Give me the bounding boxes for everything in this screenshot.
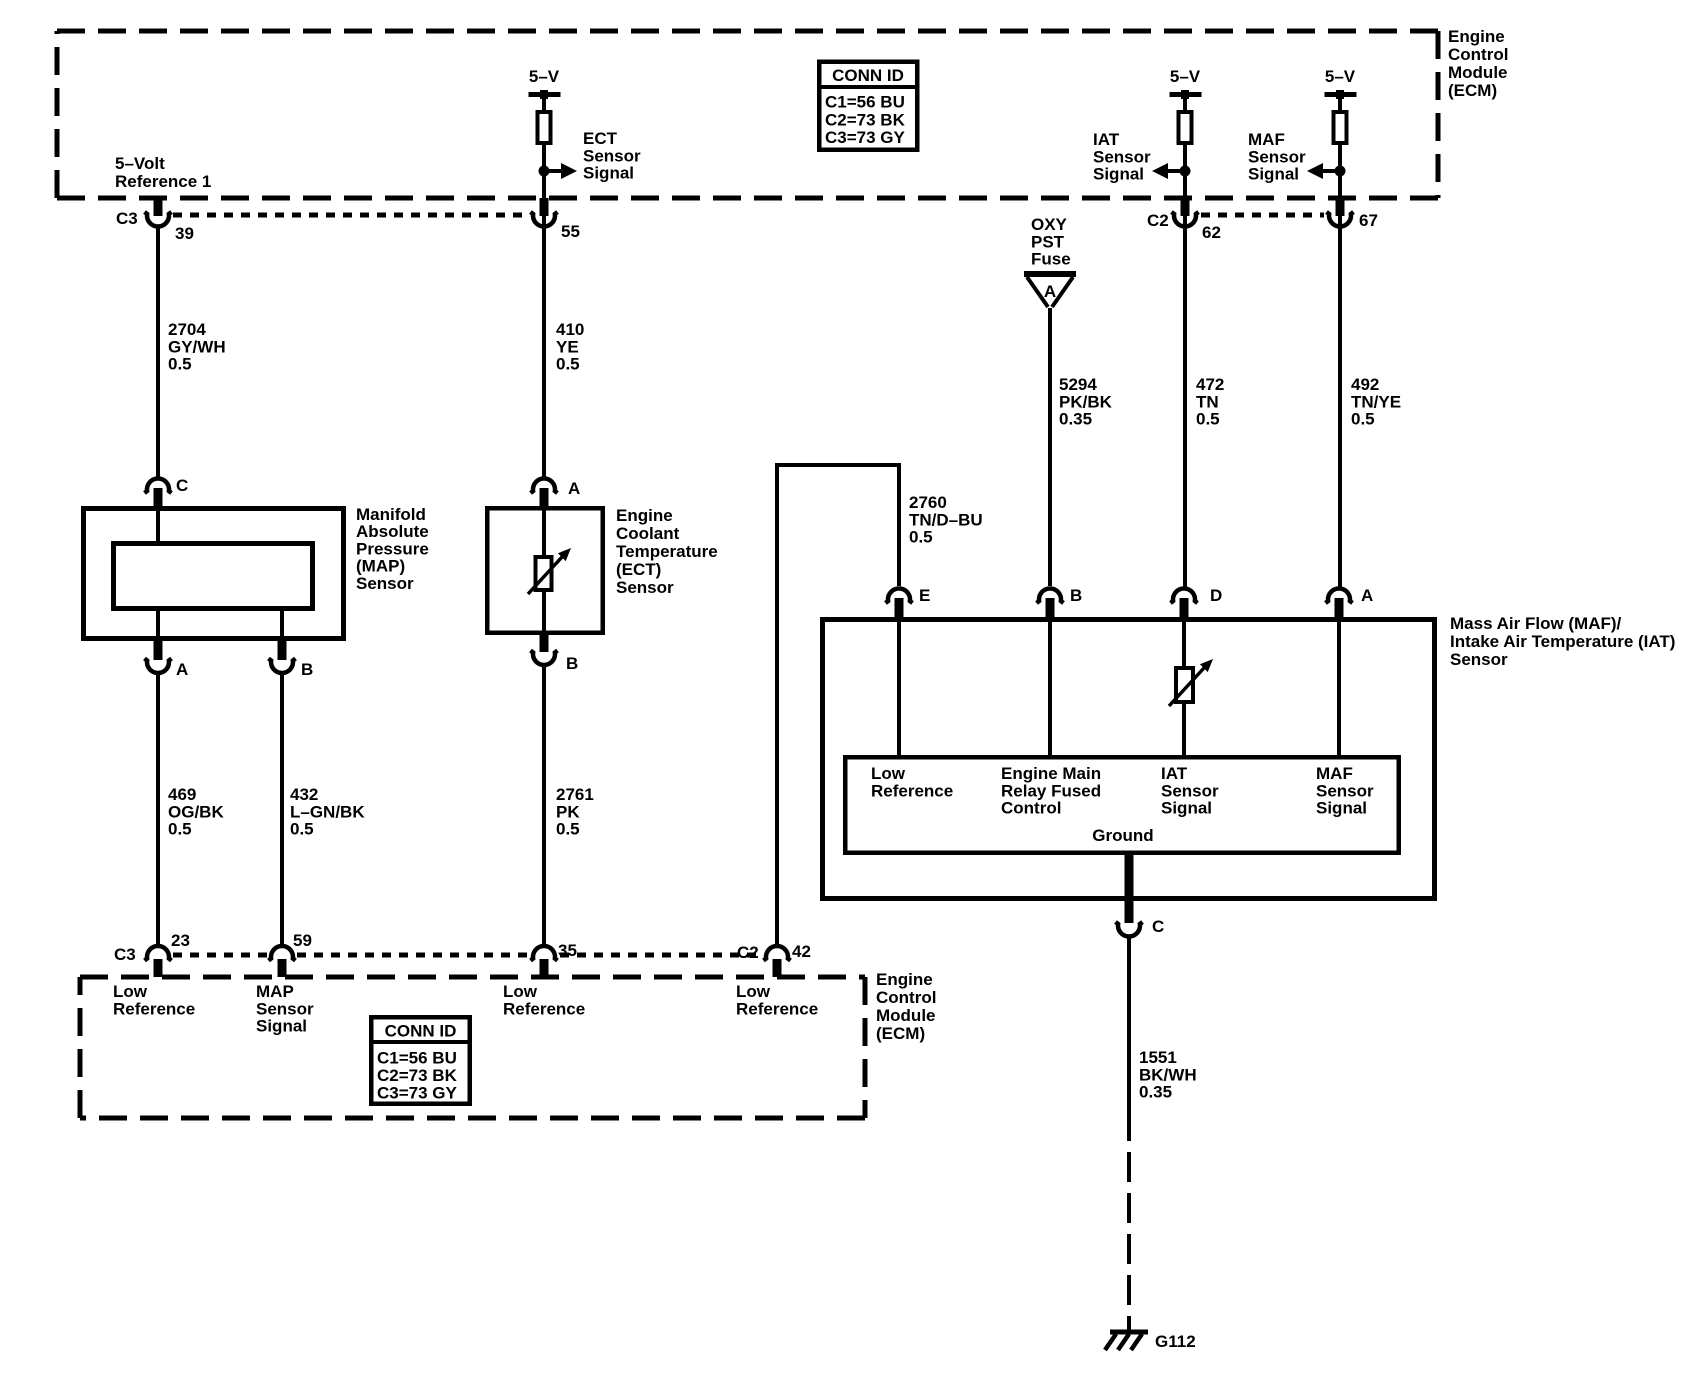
IAT sensor signal junction dot [1180,166,1191,177]
svg-text:0.5: 0.5 [1351,410,1375,429]
svg-text:Signal: Signal [583,164,634,183]
ECM bottom label Low Reference (pin 23) [113,982,195,1018]
ECT sensor connector B arc [531,651,558,665]
svg-text:Relay Fused: Relay Fused [1001,781,1101,800]
wire label 432 [290,785,365,839]
svg-text:67: 67 [1359,211,1378,230]
svg-text:0.5: 0.5 [909,528,933,547]
svg-text:GY/WH: GY/WH [168,337,226,356]
svg-text:CONN ID: CONN ID [385,1022,457,1041]
wire 5-V bar to resistor (MAF) [1338,95,1342,110]
MAF/IAT connector B arc [1037,589,1064,603]
wire label 410 [556,320,584,374]
MAF/IAT connector B stub [1046,598,1055,617]
svg-text:MAF: MAF [1316,764,1353,783]
svg-text:Pressure: Pressure [356,539,429,558]
svg-text:G112: G112 [1155,1332,1196,1351]
svg-text:Signal: Signal [1161,799,1212,818]
svg-text:Sensor: Sensor [1248,147,1306,166]
svg-text:(ECT): (ECT) [616,560,661,579]
svg-text:472: 472 [1196,375,1224,394]
wire MAP pin C inside [156,506,160,541]
ECM connector stub C2 pin 62 [1181,198,1190,216]
ground symbol G112 [1105,1332,1148,1350]
svg-text:492: 492 [1351,375,1379,394]
ECT sensor signal arrow [544,163,577,179]
wire label 469 [168,785,224,839]
svg-text:MAF: MAF [1248,130,1285,149]
svg-text:(MAP): (MAP) [356,557,405,576]
ECM bottom connector stub pin 59 [278,959,287,977]
wire 469 OG/BK (MAP A low ref) [156,674,160,947]
wire 5-V bar to resistor (ECT) [542,95,546,110]
svg-text:Engine Main: Engine Main [1001,764,1101,783]
svg-text:Reference: Reference [503,999,585,1018]
svg-text:0.35: 0.35 [1139,1083,1172,1102]
MAP sensor outer box [84,509,344,639]
connector dashed line C3 top [173,213,528,218]
svg-text:A: A [568,479,580,498]
wire B inside [1048,617,1052,755]
svg-text:PST: PST [1031,232,1065,251]
svg-text:Mass Air Flow (MAF)/: Mass Air Flow (MAF)/ [1450,614,1622,633]
svg-text:Module: Module [876,1006,936,1025]
svg-text:B: B [301,660,313,679]
ECM connector arc C3 pin 39 [145,212,172,226]
wire D inside top [1182,617,1186,669]
wire label 472 [1196,375,1224,429]
resistor pull-up (IAT) [1179,112,1192,143]
wire 2760 TN/D-BU (low reference, C2-42 to MAF E) [777,465,899,946]
wire 5-V bar to resistor (IAT) [1183,95,1187,110]
IAT sensor signal arrow [1152,163,1185,179]
fuse OXY PST label [1031,215,1071,269]
svg-text:Reference 1: Reference 1 [115,172,211,191]
ECM module bottom dashed box [80,977,865,1118]
resistor pull-up (MAF) [1334,112,1347,143]
ECT sensor connector B stub [540,635,549,652]
svg-text:Coolant: Coolant [616,524,680,543]
svg-text:CONN ID: CONN ID [832,66,904,85]
MAP sensor connector C arc [145,479,172,493]
MAF/IAT sensor label [1450,614,1675,669]
svg-text:C2: C2 [737,943,759,962]
wire 2704 GY/WH (5V ref to MAP C) [156,227,160,478]
ECT sensor signal label [583,129,641,183]
svg-text:A: A [176,660,188,679]
ground wire thick (inner box to connector C) [1125,855,1134,923]
MAP sensor connector A arc [145,659,172,673]
ECM bottom label MAP Sensor Signal [256,982,314,1036]
svg-text:C1=56 BU: C1=56 BU [825,93,905,112]
svg-text:YE: YE [556,337,579,356]
svg-text:23: 23 [171,931,190,950]
svg-text:2761: 2761 [556,785,594,804]
ECT sensor connector A stub [540,488,549,506]
wire 472 TN (IAT signal) [1183,227,1187,587]
svg-text:59: 59 [293,931,312,950]
wire D inside bottom [1182,700,1186,755]
wire label 2760 [909,493,983,547]
svg-text:IAT: IAT [1161,764,1188,783]
MAF/IAT connector E stub [895,598,904,617]
resistor pull-up (ECT) [538,112,551,143]
MAF/IAT connector D stub [1180,598,1189,617]
svg-text:432: 432 [290,785,318,804]
wire E inside [897,617,901,755]
svg-text:0.5: 0.5 [290,820,314,839]
ECM label bottom right [876,970,936,1043]
svg-text:B: B [1070,586,1082,605]
ECM bottom connector stub C2 pin 42 [773,959,782,977]
svg-text:A: A [1361,586,1373,605]
svg-text:Low: Low [503,982,538,1001]
wire 2761 PK (ECT low ref) [542,665,546,946]
svg-text:PK: PK [556,802,580,821]
svg-text:D: D [1210,586,1222,605]
ECM connector stub pin 55 [540,198,549,216]
ECM bottom label Low Reference (pin 42) [736,982,818,1018]
svg-text:0.5: 0.5 [168,820,192,839]
svg-text:C1=56 BU: C1=56 BU [377,1049,457,1068]
MAF/IAT connector E arc [886,589,913,603]
svg-text:ECT: ECT [583,129,618,148]
svg-text:(ECM): (ECM) [876,1024,925,1043]
5-V supply symbol (MAF pull-up) [1325,67,1357,99]
svg-text:Manifold: Manifold [356,505,426,524]
svg-text:2704: 2704 [168,320,206,339]
svg-text:Low: Low [736,982,771,1001]
svg-text:A: A [1044,282,1056,301]
svg-text:L–GN/BK: L–GN/BK [290,802,365,821]
ECT sensor signal junction dot [539,166,550,177]
svg-text:C: C [1152,917,1164,936]
svg-text:1551: 1551 [1139,1048,1177,1067]
ECM bottom connector arc pin 35 [531,946,558,960]
ECT sensor label [616,506,718,597]
MAF/IAT connector A stub [1335,598,1344,617]
ECM bottom label Low Reference (pin 35) [503,982,585,1018]
ECM bottom connector arc C3 pin 23 [145,946,172,960]
svg-text:Engine: Engine [876,970,933,989]
svg-text:0.35: 0.35 [1059,410,1092,429]
terminal label MAF Sensor Signal [1316,764,1374,818]
wire resistor to connector (ECT) [542,145,546,229]
svg-text:0.5: 0.5 [168,355,192,374]
ECM connector arc C2 pin 62 [1172,212,1199,226]
MAP sensor inner box [114,544,313,609]
svg-text:Low: Low [871,764,906,783]
svg-text:Sensor: Sensor [1450,650,1508,669]
svg-text:Module: Module [1448,63,1508,82]
MAP sensor connector B stub [278,641,287,660]
wire 432 L-GN/BK (MAP signal) [280,674,284,947]
svg-text:Engine: Engine [616,506,673,525]
svg-text:Fuse: Fuse [1031,250,1071,269]
svg-text:Signal: Signal [1093,165,1144,184]
ECM bottom connector arc pin 59 [269,946,296,960]
MAF/IAT connector D arc [1171,589,1198,603]
svg-text:E: E [919,586,930,605]
connector dashed line C2 top [1201,213,1324,218]
svg-text:C: C [176,476,188,495]
svg-text:469: 469 [168,785,196,804]
svg-text:Control: Control [1448,45,1508,64]
svg-text:5–V: 5–V [529,67,560,86]
wire 5294 PK/BK (fuse to MAF B) [1048,308,1052,586]
svg-text:0.5: 0.5 [556,820,580,839]
ECM bottom connector stub C3 pin 23 [154,959,163,977]
MAF sensor signal arrow [1307,163,1340,179]
svg-text:35: 35 [558,941,577,960]
svg-text:C2: C2 [1147,211,1169,230]
svg-text:TN: TN [1196,392,1219,411]
svg-text:Temperature: Temperature [616,542,718,561]
5-V supply symbol (IAT pull-up) [1170,67,1202,99]
svg-text:C2=73 BK: C2=73 BK [825,110,906,129]
terminal label Engine Main Relay Fused Control [1001,764,1101,818]
svg-text:Sensor: Sensor [1316,781,1374,800]
connector dashed line bottom [173,953,267,958]
svg-text:Sensor: Sensor [583,146,641,165]
ECM bottom connector arc C2 pin 42 [764,946,791,960]
svg-text:MAP: MAP [256,982,294,1001]
ECT sensor box [487,508,603,633]
terminal label IAT Sensor Signal [1161,764,1219,818]
svg-text:Engine: Engine [1448,27,1505,46]
wire MAP pin B inside [280,611,284,641]
svg-text:Signal: Signal [256,1017,307,1036]
svg-text:2760: 2760 [909,493,947,512]
svg-text:BK/WH: BK/WH [1139,1065,1197,1084]
wire 492 TN/YE (MAF signal) [1338,227,1342,587]
fuse symbol A (OXY PST) [1024,274,1076,307]
svg-text:Sensor: Sensor [616,578,674,597]
svg-text:OXY: OXY [1031,215,1068,234]
svg-text:Low: Low [113,982,148,1001]
MAF sensor signal junction dot [1335,166,1346,177]
svg-text:0.5: 0.5 [1196,410,1220,429]
wire resistor to connector (MAF) [1338,145,1342,229]
MAF/IAT connector C arc (ground) [1116,922,1143,936]
wire 1551 BK/WH solid [1127,937,1131,1142]
wire label 492 [1351,375,1401,429]
MAF/IAT inner terminal box [845,757,1399,853]
MAF sensor signal label [1248,130,1306,184]
ECM connector stub pin 67 [1336,198,1345,216]
svg-text:Sensor: Sensor [1161,781,1219,800]
svg-text:IAT: IAT [1093,130,1120,149]
wire MAP pin A inside [156,611,160,641]
CONN ID table bottom [369,1017,472,1104]
MAF/IAT connector A arc [1326,589,1353,603]
svg-text:TN/YE: TN/YE [1351,392,1401,411]
svg-text:Signal: Signal [1248,165,1299,184]
MAP sensor label [356,505,429,593]
MAP sensor connector B arc [269,659,296,673]
svg-text:Control: Control [876,988,936,1007]
MAP sensor connector A stub [154,641,163,660]
IAT sensor signal label [1093,130,1151,184]
svg-text:Signal: Signal [1316,799,1367,818]
wire ECT inside top [542,506,546,558]
svg-text:62: 62 [1202,223,1221,242]
svg-text:55: 55 [561,222,580,241]
wire 1551 dashed section [1127,1152,1131,1334]
ECT sensor connector A arc [531,479,558,493]
svg-text:C2=73 BK: C2=73 BK [377,1066,458,1085]
svg-text:Absolute: Absolute [356,522,429,541]
svg-text:39: 39 [175,224,194,243]
wire label 2704 [168,320,226,374]
ECM module top dashed box [57,31,1438,198]
svg-text:OG/BK: OG/BK [168,802,224,821]
svg-text:Sensor: Sensor [1093,147,1151,166]
CONN ID table top [817,62,920,150]
svg-text:C3: C3 [116,209,138,228]
svg-text:Intake Air Temperature (IAT): Intake Air Temperature (IAT) [1450,632,1675,651]
5-Volt Reference 1 label [115,154,211,191]
wire label 2761 [556,785,594,839]
wire label 5294 [1059,375,1113,429]
svg-text:5–Volt: 5–Volt [115,154,165,173]
ECM connector arc pin 55 [531,212,558,226]
wire resistor to connector (IAT) [1183,145,1187,229]
wire A inside [1337,617,1341,755]
ECM bottom connector stub pin 35 [540,959,549,977]
svg-text:(ECM): (ECM) [1448,81,1497,100]
ECM connector arc pin 67 [1327,212,1354,226]
svg-text:410: 410 [556,320,584,339]
svg-text:5294: 5294 [1059,375,1097,394]
svg-text:C3=73 GY: C3=73 GY [825,128,906,147]
MAP sensor connector C stub [154,488,163,506]
svg-text:42: 42 [792,942,811,961]
IAT thermistor symbol [1169,659,1213,706]
svg-text:TN/D–BU: TN/D–BU [909,510,983,529]
svg-text:Sensor: Sensor [356,574,414,593]
wire 410 YE (ECT signal) [542,227,546,478]
svg-text:0.5: 0.5 [556,355,580,374]
svg-text:C3: C3 [114,945,136,964]
5-V supply symbol (ECT pull-up) [529,67,561,99]
svg-text:5–V: 5–V [1170,67,1201,86]
wire ECT inside bottom [542,588,546,635]
svg-text:Sensor: Sensor [256,999,314,1018]
MAF/IAT sensor outer box [823,620,1435,899]
svg-text:PK/BK: PK/BK [1059,392,1113,411]
svg-text:C3=73 GY: C3=73 GY [377,1084,458,1103]
svg-text:Control: Control [1001,799,1061,818]
terminal label Low Reference [871,764,953,800]
svg-text:Reference: Reference [113,999,195,1018]
ECM label top right [1448,27,1508,100]
svg-text:Ground: Ground [1092,826,1153,845]
ECM connector stub C3 pin 39 [154,198,163,216]
wire label 1551 [1139,1048,1197,1102]
ECT thermistor symbol [528,548,571,594]
svg-text:Reference: Reference [871,781,953,800]
svg-text:5–V: 5–V [1325,67,1356,86]
svg-text:B: B [566,654,578,673]
svg-text:Reference: Reference [736,999,818,1018]
